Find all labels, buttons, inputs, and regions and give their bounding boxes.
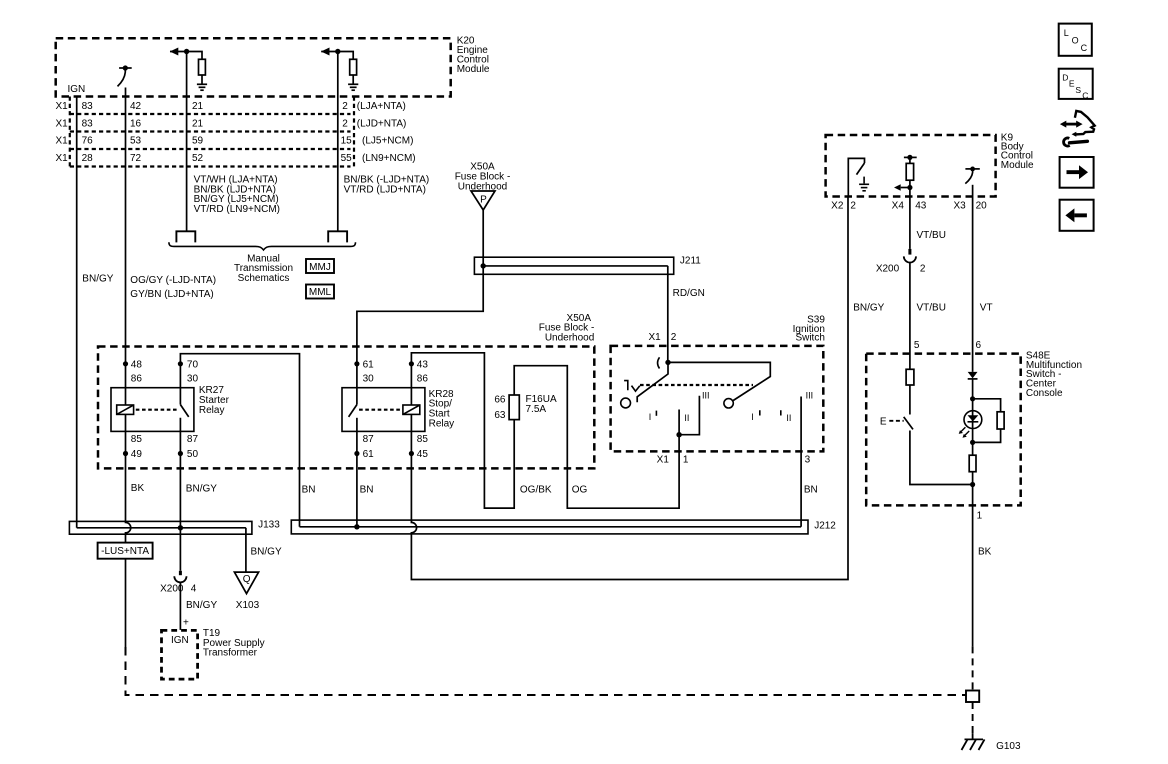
svg-text:43: 43 — [417, 359, 429, 370]
svg-text:OG: OG — [572, 485, 588, 496]
label KR27 Starter Relay — [199, 385, 230, 416]
svg-text:BK: BK — [131, 483, 145, 494]
icon button back arrow — [1060, 200, 1094, 231]
wire X200-4 to T19 — [179, 582, 181, 630]
svg-text:86: 86 — [131, 374, 143, 385]
svg-text:X1: X1 — [56, 136, 69, 147]
svg-text:O: O — [1072, 36, 1079, 46]
wire KR27 coil low side down through J133 hop to -LUS+NTA — [126, 414, 131, 542]
wire IGN BN/GY (K20 X1-83 down to J133) — [76, 97, 78, 528]
wire resistor to switch — [909, 385, 911, 415]
svg-text:BN: BN — [804, 485, 818, 496]
wire label VT — [980, 303, 993, 314]
wire labels OG/GY GY/BN — [130, 275, 216, 300]
svg-text:(LJD+NTA): (LJD+NTA) — [357, 118, 407, 129]
svg-text:VT/BU: VT/BU — [917, 303, 946, 314]
wire label BN (S39 pin 3) — [804, 485, 818, 496]
svg-text:Module: Module — [457, 64, 490, 75]
back arrow glyph — [1065, 208, 1087, 222]
svg-text:Underhood: Underhood — [545, 333, 594, 344]
svg-text:85: 85 — [417, 434, 429, 445]
svg-text:E: E — [1069, 79, 1075, 89]
module K9 Body Control Module (dashed outline) — [826, 135, 996, 197]
wire resistor to ground (right) — [352, 75, 354, 84]
svg-text:BN/GY: BN/GY — [82, 274, 113, 285]
node junction on J211 — [481, 263, 486, 268]
svg-text:J211: J211 — [680, 256, 701, 267]
wire junction to resistor (left) — [187, 52, 202, 60]
node junction (K9 X4-43) — [907, 185, 912, 190]
switch blade right (to start contact) — [668, 362, 770, 400]
wire label BN/GY (to T19) — [186, 600, 217, 611]
svg-text:BN: BN — [302, 485, 316, 496]
svg-text:Switch: Switch — [795, 333, 824, 344]
svg-text:Schematics: Schematics — [238, 273, 290, 284]
reference box MMJ — [306, 259, 334, 273]
K9 module label — [1001, 133, 1034, 171]
pin numbers row 3 — [82, 136, 414, 147]
icon connector repair (double arrow, shape, wrench) — [1060, 111, 1095, 146]
switch inside K20 (ignition sense contact) — [118, 65, 132, 86]
svg-text:BN/GY: BN/GY — [186, 600, 217, 611]
svg-text:C: C — [1081, 43, 1088, 53]
node junction below LED — [970, 440, 975, 445]
wire switch to common node — [910, 431, 973, 485]
ground (K9 internal) — [859, 177, 869, 191]
node junction output — [676, 432, 681, 437]
ground block connector (square) — [966, 691, 979, 703]
pin labels KR27 bottom — [131, 434, 199, 460]
label X200 4 — [160, 584, 197, 595]
svg-text:I: I — [649, 412, 652, 422]
wire KR28 pin 45 to BCM X2-2 (with hop over J212) — [411, 197, 848, 580]
connector X103 (triangle) — [234, 572, 258, 594]
svg-text:X1: X1 — [56, 118, 69, 129]
multifunction switch S48E box (dashed) — [866, 354, 1021, 506]
wire series resistor to pin 1 — [972, 472, 974, 506]
splice pack J133 (bus bar) — [69, 521, 252, 534]
svg-text:GY/BN (LJD+NTA): GY/BN (LJD+NTA) — [130, 289, 213, 300]
relay KR28 box — [342, 388, 425, 432]
label E with dashed link — [880, 416, 887, 427]
node junction (K20 right pullup) — [335, 49, 340, 54]
label box -LUS+NTA — [98, 543, 153, 559]
svg-text:20: 20 — [976, 200, 988, 211]
svg-text:I: I — [751, 412, 754, 422]
brace (manual transmission schematics) — [169, 242, 356, 250]
node junction common — [970, 482, 975, 487]
switch to ground (K9 internal, X2-2 driver) — [848, 158, 864, 196]
svg-text:D: D — [1062, 73, 1068, 83]
arrow (signal, K9 internal) — [894, 184, 910, 190]
label MMJ — [309, 262, 331, 273]
svg-text:45: 45 — [417, 449, 429, 460]
svg-text:Module: Module — [1001, 160, 1034, 171]
wire KR27 switch side down to J133 and X200-4 — [179, 418, 181, 571]
svg-text:1: 1 — [683, 455, 689, 466]
wire (K20 pin 2 column down to MT schematics) — [337, 52, 339, 232]
ignition switch S39 box (dashed) — [611, 346, 824, 452]
label Manual Transmission Schematics — [234, 254, 293, 284]
svg-text:70: 70 — [187, 359, 199, 370]
svg-text:X1: X1 — [648, 332, 661, 343]
label J212 — [814, 521, 836, 532]
svg-text:VT/RD (LJD+NTA): VT/RD (LJD+NTA) — [344, 184, 426, 195]
svg-text:MML: MML — [309, 287, 332, 298]
svg-text:Console: Console — [1026, 388, 1063, 399]
contact circle (accessory) — [621, 398, 631, 408]
svg-text:X3: X3 — [953, 200, 966, 211]
wire label BN/GY (KR27 pin 50 wire) — [186, 483, 217, 494]
svg-text:BN/GY: BN/GY — [853, 303, 884, 314]
svg-text:21: 21 — [192, 101, 204, 112]
svg-text:BN/GY: BN/GY — [251, 547, 282, 558]
svg-text:VT/RD (LN9+NCM): VT/RD (LN9+NCM) — [194, 204, 280, 215]
label X50A Fuse Block - Underhood (top) — [455, 162, 511, 193]
svg-text:15: 15 — [341, 136, 353, 147]
pin labels fuse 66 63 — [494, 395, 506, 422]
label P — [480, 195, 487, 206]
wire dashed to ground block — [972, 646, 974, 690]
wire X200-2 to S48E pin 5 — [909, 263, 911, 370]
label J211 — [680, 256, 701, 267]
svg-text:X1: X1 — [657, 455, 670, 466]
node junction (K20 left pullup) — [184, 49, 189, 54]
resistor (S48E pin 5 branch) — [906, 369, 914, 385]
svg-text:28: 28 — [82, 153, 94, 164]
svg-text:30: 30 — [363, 374, 375, 385]
wire resistor to ground (left) — [201, 75, 203, 84]
label T19 Power Supply Transformer — [203, 628, 265, 658]
wire label BK — [131, 483, 145, 494]
connector X200 pin 4 (inline connector symbol) — [174, 571, 186, 583]
svg-text:85: 85 — [131, 434, 143, 445]
wire diode to LED — [972, 379, 974, 443]
svg-text:MMJ: MMJ — [309, 262, 331, 273]
wire dashed to G103 square — [126, 647, 967, 695]
forward arrow glyph — [1067, 165, 1089, 179]
svg-text:X4: X4 — [892, 200, 905, 211]
resistor (S48E series) — [969, 455, 976, 472]
svg-text:(LN9+NCM): (LN9+NCM) — [362, 153, 416, 164]
ground (K20 internal, right) — [348, 84, 358, 90]
svg-text:52: 52 — [192, 153, 204, 164]
node KR28 pin 61 — [354, 361, 359, 366]
svg-text:42: 42 — [130, 101, 142, 112]
wire KR28 switch out to J212 — [356, 418, 358, 527]
wire label BN/GY (to X103) — [251, 547, 282, 558]
svg-text:43: 43 — [915, 200, 927, 211]
wire label OG/BK — [520, 485, 552, 496]
resistor (K20 internal pull-up, right) — [350, 59, 357, 75]
wire label BK — [978, 547, 992, 558]
wire below -LUS+NTA box (solid part) — [125, 559, 127, 647]
contact circle (start) — [724, 399, 733, 408]
pin labels KR27 top — [131, 359, 199, 384]
pin labels KR28 bottom — [363, 434, 429, 460]
wire fuse to S39 X1-1 (OG) — [514, 366, 679, 509]
svg-text:2: 2 — [342, 118, 348, 129]
resistor (K9 internal, X4-43 pull-up) — [904, 155, 917, 197]
detent arc — [658, 357, 660, 368]
svg-text:J133: J133 — [258, 520, 280, 531]
pin label X1 2 (S39 top) — [648, 332, 676, 343]
label -LUS+NTA — [101, 546, 149, 557]
svg-text:X1: X1 — [56, 153, 69, 164]
svg-text:S: S — [1075, 85, 1081, 95]
svg-text:87: 87 — [187, 434, 199, 445]
svg-text:C: C — [1082, 91, 1088, 101]
svg-text:86: 86 — [417, 374, 429, 385]
pin numbers row 1 — [82, 101, 406, 112]
svg-text:63: 63 — [494, 410, 506, 421]
svg-text:X1: X1 — [56, 101, 69, 112]
svg-text:76: 76 — [82, 136, 94, 147]
switch blade (S48E) — [904, 417, 913, 430]
relay KR27 link (dashed) — [136, 409, 177, 411]
relay KR27 coil — [117, 405, 134, 414]
svg-text:2: 2 — [342, 101, 348, 112]
svg-text:IGN: IGN — [68, 84, 86, 95]
icon button forward arrow — [1060, 157, 1094, 188]
label S39 Ignition Switch — [793, 314, 826, 343]
svg-text:66: 66 — [494, 395, 506, 406]
svg-text:16: 16 — [130, 118, 142, 129]
wire LED node to series resistor — [972, 442, 974, 455]
wire label BN (KR27 jumper) — [302, 485, 316, 496]
svg-text:II: II — [684, 413, 689, 423]
svg-text:6: 6 — [976, 340, 982, 351]
svg-text:55: 55 — [341, 153, 353, 164]
svg-text:Relay: Relay — [429, 418, 455, 429]
svg-text:2: 2 — [920, 264, 926, 275]
wire P down through J211 to KR28 pin 61 — [357, 210, 483, 405]
wire label VT/BU (lower) — [917, 303, 946, 314]
node KR27 pin 48 — [123, 361, 128, 366]
key symbol — [624, 381, 640, 392]
relay KR28 switch — [349, 405, 357, 417]
node KR27 pin 50 — [178, 451, 183, 456]
svg-text:50: 50 — [187, 449, 199, 460]
svg-text:X103: X103 — [236, 600, 260, 611]
icon button DESC — [1059, 69, 1093, 99]
node junction S39 input — [665, 360, 670, 365]
svg-text:2: 2 — [671, 332, 677, 343]
resistor (parallel with LED) — [997, 412, 1004, 429]
wire K9 X4-43 to X200-2 — [909, 197, 911, 249]
wire OG/GY (K20 column 2 down through KR27 coil to J133 and ground line) — [125, 88, 127, 406]
svg-text:VT: VT — [980, 303, 993, 314]
svg-text:21: 21 — [192, 118, 204, 129]
svg-text:P: P — [480, 195, 487, 206]
svg-text:(LJ5+NCM): (LJ5+NCM) — [362, 136, 413, 147]
wire label BN/GY (IGN wire) — [82, 274, 113, 285]
wire KR27 pin 70 jumper to J212 — [180, 354, 299, 527]
ground G103 (chassis ground) — [962, 733, 985, 750]
wire label BN/GY (BCM X2-2 wire) — [853, 303, 884, 314]
svg-text:48: 48 — [131, 359, 143, 370]
pin numbers row 2 — [82, 118, 407, 129]
label X200 2 — [876, 264, 926, 275]
wire KR28 pin 43 to coil — [410, 364, 412, 454]
switch (K9 internal, X3-20 sense) — [965, 167, 980, 197]
polarity label + — [183, 618, 189, 629]
relay KR28 link (dashed) — [359, 409, 401, 411]
label IGN inside T19 — [171, 635, 189, 646]
svg-text:X2: X2 — [831, 200, 844, 211]
svg-text:OG/BK: OG/BK — [520, 485, 552, 496]
svg-text:III: III — [702, 391, 710, 401]
connector symbol (left, to manual transmission) — [176, 231, 195, 242]
node junction on J212 — [354, 524, 359, 529]
svg-text:3: 3 — [805, 455, 811, 466]
svg-text:BK: BK — [978, 547, 992, 558]
svg-text:30: 30 — [187, 374, 199, 385]
svg-text:4: 4 — [191, 584, 197, 595]
K20 module label — [457, 36, 490, 76]
position labels left I II III — [649, 391, 710, 423]
svg-text:IGN: IGN — [171, 635, 189, 646]
label G103 — [996, 741, 1021, 752]
svg-text:L: L — [1064, 28, 1069, 38]
svg-text:59: 59 — [192, 136, 204, 147]
wire color labels (left column) — [194, 175, 280, 215]
wire KR28 pin 43 jumper to fuse F16UA — [411, 353, 514, 508]
node junction on J133 — [178, 525, 183, 530]
ground (K20 internal, left) — [197, 84, 207, 90]
svg-text:72: 72 — [130, 153, 142, 164]
net label IGN — [68, 84, 86, 95]
wire S39 pin 3 (BN to J212) — [800, 397, 802, 527]
svg-text:61: 61 — [363, 359, 375, 370]
svg-text:BN/GY: BN/GY — [186, 483, 217, 494]
connector symbol (right, to manual transmission) — [328, 231, 347, 242]
label S48E Multifunction Switch - Center Console — [1026, 351, 1082, 399]
pin label X1 1 3 (S39 bottom) — [657, 455, 811, 466]
svg-text:II: II — [786, 413, 791, 423]
connector row grid (K20 X1 pin rows, dashed) — [70, 97, 354, 167]
splice pack J211 (bus bar) — [474, 257, 673, 274]
pin labels K9 bottom X2 2 X4 43 X3 20 — [831, 200, 987, 211]
label Q inside X103 — [243, 574, 251, 585]
wire color labels (right column) — [344, 175, 430, 196]
position III contact elbow to output — [679, 396, 699, 435]
wire K9 X3-20 to S48E pin 6 — [972, 197, 974, 372]
resistor (K20 internal pull-up, left) — [199, 59, 206, 75]
svg-text:1: 1 — [977, 511, 983, 522]
svg-text:+: + — [183, 618, 189, 629]
svg-text:X200: X200 — [876, 264, 900, 275]
dashed link E to blade — [889, 420, 903, 422]
splice pack J212 (bus bar) — [291, 520, 808, 534]
wire label VT/BU (upper) — [917, 230, 946, 241]
arrow (signal to left, K20 internal right) — [321, 48, 338, 56]
LED (S48E indicator) — [964, 411, 982, 429]
node KR27 pin 70 — [178, 361, 183, 366]
svg-text:Transformer: Transformer — [203, 647, 258, 658]
fuse F16UA — [509, 395, 519, 420]
pin labels 5 6 (S48E top) — [914, 340, 982, 351]
svg-text:VT/BU: VT/BU — [917, 230, 946, 241]
svg-text:87: 87 — [363, 434, 375, 445]
label X50A Fuse Block - Underhood (relay box) — [539, 313, 595, 344]
switch blade left (run contact) — [637, 362, 668, 402]
relay KR27 switch — [180, 364, 188, 417]
parallel resistor branch — [973, 399, 1001, 443]
pin numbers row 4 — [82, 153, 416, 164]
node KR28 pin 45 — [409, 451, 414, 456]
wire RD/GN (J211 to S39 X1-2) — [667, 266, 669, 363]
arrow (signal to left, K20 internal left) — [170, 48, 187, 56]
svg-text:Q: Q — [243, 574, 251, 585]
wire label BN (KR28 switch out) — [360, 485, 374, 496]
wire BK (S48E pin 1 down) — [972, 505, 974, 646]
node junction above LED — [970, 396, 975, 401]
connector X1 row labels — [56, 101, 69, 164]
position tick left — [655, 411, 657, 416]
svg-text:61: 61 — [363, 449, 375, 460]
position ticks right — [760, 410, 781, 415]
svg-text:Relay: Relay — [199, 405, 225, 416]
label J133 — [258, 520, 280, 531]
wire label OG — [572, 485, 588, 496]
svg-text:2: 2 — [850, 200, 856, 211]
svg-text:-LUS+NTA: -LUS+NTA — [101, 546, 149, 557]
wire junction to resistor (right) — [338, 52, 353, 60]
svg-text:83: 83 — [82, 101, 94, 112]
svg-text:83: 83 — [82, 118, 94, 129]
connector symbol P (triangle) — [471, 191, 495, 210]
LED light arrows — [959, 427, 970, 438]
fuse block X50A (dashed outline) — [98, 347, 594, 469]
transformer T19 box (dashed) — [162, 630, 198, 679]
wire J133 to X103 — [245, 528, 247, 572]
label MML — [309, 287, 332, 298]
label X103 — [236, 600, 260, 611]
label F16UA 7.5A — [526, 394, 557, 415]
connector X200 pin 2 (inline connector symbol) — [904, 249, 916, 263]
icon LOC letters — [1064, 28, 1088, 53]
icon DESC letters — [1062, 73, 1088, 101]
wire label RD/GN — [673, 288, 705, 299]
wire (K20 pin 21 column down to MT schematics) — [186, 52, 188, 232]
node KR27 pin 49 — [123, 451, 128, 456]
svg-text:G103: G103 — [996, 741, 1021, 752]
svg-text:BN: BN — [360, 485, 374, 496]
svg-text:5: 5 — [914, 340, 920, 351]
svg-text:III: III — [806, 391, 814, 401]
relay KR27 box — [111, 388, 194, 432]
node KR28 pin 61 bottom — [354, 451, 359, 456]
svg-text:49: 49 — [131, 449, 143, 460]
icon button LOC — [1059, 24, 1092, 56]
position labels right I II III — [751, 391, 813, 423]
module K20 Engine Control Module (dashed outline) — [56, 38, 451, 96]
svg-text:53: 53 — [130, 136, 142, 147]
svg-text:7.5A: 7.5A — [526, 404, 547, 415]
diode (S48E pin 6 branch) — [968, 372, 978, 379]
svg-text:J212: J212 — [814, 521, 836, 532]
node KR28 pin 43 — [409, 361, 414, 366]
relay KR28 coil — [403, 405, 420, 414]
pin label 1 (S48E bottom) — [977, 511, 983, 522]
svg-text:RD/GN: RD/GN — [673, 288, 705, 299]
reference box MML — [306, 285, 334, 299]
wire dashed square to G103 — [972, 702, 974, 733]
svg-text:OG/GY (-LJD-NTA): OG/GY (-LJD-NTA) — [130, 275, 216, 286]
pin labels KR28 top — [363, 359, 429, 384]
ganged link (dashed) — [640, 384, 753, 386]
